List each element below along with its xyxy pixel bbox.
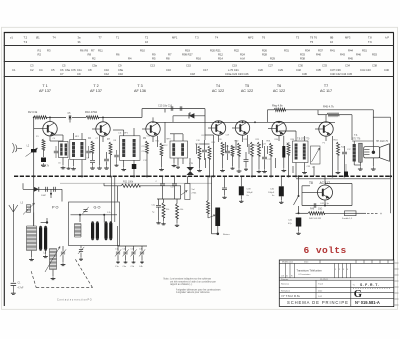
svg-text:C30: C30 (298, 64, 303, 68)
svg-text:Tracé: Tracé (318, 283, 324, 285)
svg-text:N° 019.581-A: N° 019.581-A (355, 300, 380, 305)
svg-text:v1: v1 (10, 35, 13, 39)
svg-text:AC 117: AC 117 (320, 89, 332, 93)
svg-text:T9 T6: T9 T6 (310, 35, 317, 39)
capacitor C25 below bus (160, 183, 165, 185)
extra short verticals mid band (225, 142, 227, 152)
svg-text:R10: R10 (140, 48, 145, 52)
svg-text:C5: C5 (62, 64, 66, 68)
resistor R24 vertical (251, 142, 254, 156)
car antenna input jack arcs (13, 143, 15, 153)
title block outer frame (279, 260, 394, 306)
svg-text:T4: T4 (215, 35, 219, 39)
junction dots on bus (33, 175, 35, 177)
svg-text:G: G (354, 289, 362, 300)
electrolytic C41 (296, 218, 302, 227)
wire T1 collector to MF1 (50, 140, 63, 142)
svg-text:8B: 8B (330, 35, 333, 39)
svg-text:4: 4 (347, 269, 348, 271)
junction dot (46, 221, 48, 223)
svg-text:C33: C33 (322, 64, 327, 68)
svg-text:T2: T2 (145, 35, 149, 39)
svg-text:MF2: MF2 (248, 35, 254, 39)
table row line 2 (4, 61, 394, 63)
wire rails down to output stage (211, 176, 213, 234)
svg-text:C35: C35 (316, 68, 321, 72)
svg-text:C41 C43: C41 C43 (360, 68, 371, 72)
svg-text:C5: C5 (51, 68, 55, 72)
junction dots on collector bus (218, 121, 220, 123)
speaker feed wire and ground (372, 146, 374, 152)
capacitor C36 (342, 151, 347, 153)
T.B wires (295, 131, 297, 141)
svg-text:19.12.61: 19.12.61 (320, 279, 329, 281)
svg-text:Vol: Vol (192, 189, 196, 191)
ground under MF1 (62, 166, 64, 168)
svg-text:C11: C11 (77, 68, 82, 72)
wire (61, 189, 63, 201)
on-off switch (298, 176, 300, 196)
detector diode wire (189, 112, 191, 116)
svg-text:C20: C20 (258, 68, 263, 72)
svg-text:C6a: C6a (65, 68, 70, 72)
capacitor C19 (202, 149, 207, 151)
junction dot (50, 193, 52, 195)
resistor R33 vertical (287, 143, 290, 155)
svg-text:R16: R16 (196, 57, 201, 61)
svg-text:4.6k: 4.6k (180, 209, 184, 211)
volume potentiometer bar (215, 208, 220, 227)
svg-text:T5: T5 (310, 40, 314, 44)
svg-text:C8: C8 (88, 68, 92, 72)
MF3 wires (173, 134, 175, 141)
svg-text:R11 100k: R11 100k (123, 180, 134, 183)
resistor R16 vertical 33k (176, 204, 179, 219)
svg-text:rapport au châssis (-).: rapport au châssis (-). (170, 283, 193, 286)
title block row lines (279, 262, 394, 264)
svg-text:R43: R43 (340, 53, 345, 57)
T5 leads (242, 121, 244, 123)
svg-text:1.2k: 1.2k (107, 212, 111, 214)
antenna lead wire down (12, 218, 14, 282)
svg-text:h.P: h.P (385, 35, 389, 39)
svg-text:R29: R29 (270, 57, 275, 61)
T3 leads (152, 117, 154, 121)
svg-text:C4: C4 (39, 68, 43, 72)
svg-text:C3: C3 (30, 64, 34, 68)
svg-text:1: 1 (335, 269, 336, 271)
table row line 1 (4, 45, 394, 47)
svg-text:C38: C38 (372, 64, 377, 68)
svg-text:A.M: A.M (240, 57, 246, 61)
main ground bus (heavy dashed) (14, 175, 392, 177)
svg-text:C5a: C5a (92, 64, 97, 68)
dashed contacteur outline (31, 271, 36, 287)
svg-text:C18: C18 (190, 72, 195, 76)
svg-text:Transistors Téléfunken: Transistors Téléfunken (297, 269, 323, 272)
svg-text:C15 18p C16: C15 18p C16 (158, 105, 173, 108)
svg-text:C32: C32 (296, 68, 301, 72)
junction dot retour (217, 233, 220, 236)
output supply line with R46 and fuse (296, 212, 309, 214)
svg-text:G O: G O (94, 206, 101, 210)
svg-text:R14: R14 (218, 57, 223, 61)
IF transformer MF1 box b (70, 140, 86, 160)
svg-text:T1: T1 (116, 35, 120, 39)
electrolytic C30 bar (282, 146, 285, 158)
svg-text:C29: C29 (278, 68, 283, 72)
fuse 1.5A (345, 211, 357, 216)
svg-text:T4: T4 (216, 84, 220, 88)
svg-text:AF 137: AF 137 (39, 89, 51, 93)
svg-text:C17: C17 (203, 68, 208, 72)
capacitor C39 electrolytic 100uF (239, 186, 244, 195)
extra stage1 vertical wire with ground (68, 159, 70, 166)
GO box inner trimmer and resistor (83, 209, 87, 211)
IF transformer MF3 box (170, 141, 188, 158)
svg-text:C36: C36 (302, 72, 307, 76)
wire (47, 116, 66, 118)
resistor R9 vertical (146, 141, 149, 153)
svg-text:3a: 3a (78, 35, 81, 39)
wire to battery plus (356, 212, 366, 214)
output transformer T.S core bar (359, 143, 363, 162)
T4 leads (218, 121, 220, 123)
diode D row top of tuner (23, 188, 62, 190)
svg-text:T 2: T 2 (93, 84, 98, 88)
svg-text:R45 4.7k: R45 4.7k (323, 104, 334, 108)
svg-text:C10: C10 (118, 72, 123, 76)
capacitor C40 electrolytic (279, 186, 284, 196)
svg-text:R22: R22 (234, 48, 239, 52)
svg-text:Modification: Modification (282, 261, 294, 264)
svg-text:AF 137: AF 137 (90, 89, 102, 93)
svg-text:R7: R7 (91, 48, 95, 52)
wire T3 emitter (157, 136, 159, 147)
svg-text:AC 122: AC 122 (273, 89, 285, 93)
svg-text:6 volts: 6 volts (304, 245, 347, 256)
capacitors C15 C16 on box line (170, 106, 172, 111)
capacitor C13 electrolytic (132, 164, 137, 169)
svg-text:Principe: Principe (281, 279, 289, 281)
wire T2 emitter string (99, 136, 101, 166)
svg-text:T 3: T 3 (137, 84, 142, 88)
transistor T4 AC122 (211, 121, 225, 135)
wire secondary supply line right (296, 178, 391, 180)
svg-text:T.S: T.S (354, 135, 358, 137)
transistor T1 AF137 (43, 122, 57, 136)
resistor R31 vertical (270, 143, 273, 156)
T6 leads (278, 121, 280, 122)
ground under C1 (12, 286, 14, 292)
capacitor C24 (262, 156, 267, 158)
extra bias resistor under T4 bus (231, 145, 234, 156)
svg-text:C40 C42 C44 C45: C40 C42 C44 C45 (330, 72, 352, 76)
wire stage5 (247, 135, 249, 147)
svg-text:R45: R45 (348, 57, 353, 61)
transistor T8 AC117 (318, 185, 333, 200)
svg-text:C6: C6 (60, 68, 64, 72)
transistor T2 AF137 (96, 122, 110, 136)
svg-text:MF1: MF1 (172, 35, 178, 39)
svg-text:C13: C13 (150, 64, 155, 68)
trimmer under GO box (80, 246, 82, 249)
wire top bus left (33, 116, 35, 118)
extra wire volume to T4 base (205, 134, 214, 136)
title block divider bottom row (350, 280, 352, 306)
svg-text:C10: C10 (104, 68, 109, 72)
wire trimmer feed (118, 245, 148, 247)
extra vertical wire x=205 (204, 122, 206, 135)
svg-text:T7: T7 (99, 35, 103, 39)
svg-text:2: 2 (339, 269, 340, 271)
extra vertical wires detector area (164, 122, 166, 143)
svg-text:R37: R37 (318, 48, 323, 52)
capacitor C1 4.7nF (11, 282, 17, 284)
svg-text:R2: R2 (38, 53, 42, 57)
trimmer CA1 under PO (62, 246, 64, 251)
svg-text:C7: C7 (60, 72, 64, 76)
resistor R44 vertical (337, 142, 340, 155)
capacitor C9 (104, 158, 109, 160)
sheet border frame (4, 32, 394, 34)
PO transformer bottom wires (31, 251, 33, 258)
resistor R3 vertical (42, 139, 45, 150)
svg-text:R44: R44 (348, 48, 353, 52)
speaker voice coil dot (372, 151, 375, 154)
wire feed to GO box (117, 186, 119, 202)
IF transformer MF1 box a (59, 142, 69, 158)
svg-text:16: 16 (330, 40, 333, 44)
oscillator wires into GO box (111, 176, 113, 222)
wire (72, 116, 86, 118)
extra stage2 cap (114, 154, 119, 156)
antenna (12, 206, 14, 218)
svg-text:R1 2.7k: R1 2.7k (41, 165, 50, 167)
svg-text:R41: R41 (330, 48, 335, 52)
resistor R12 vertical (160, 143, 163, 156)
wire T4 base bias (213, 135, 215, 176)
svg-text:3b: 3b (78, 40, 81, 44)
transistor T6 AC122 (272, 121, 286, 135)
svg-text:T 1: T 1 (42, 84, 47, 88)
electrolytic cap near T8 (344, 172, 348, 177)
svg-text:R46 10Ω 5W: R46 10Ω 5W (309, 218, 321, 220)
svg-text:4.7nF: 4.7nF (18, 287, 24, 289)
svg-text:C9: C9 (118, 64, 122, 68)
svg-text:R99 R27: R99 R27 (182, 53, 193, 57)
title block vertical dividers tall row (285, 263, 287, 277)
svg-text:R34: R34 (305, 48, 310, 52)
svg-text:AC 122: AC 122 (212, 89, 224, 93)
transistor T3 AF136 (146, 122, 160, 136)
svg-text:A signaler valeurs pour ré: A signaler valeurs pour référence (176, 291, 210, 294)
svg-text:C19: C19 (232, 64, 237, 68)
svg-text:R40: R40 (316, 53, 321, 57)
svg-text:3: 3 (343, 269, 344, 271)
svg-text:R6: R6 (80, 48, 84, 52)
capacitor C21 (225, 150, 230, 152)
resistor R46 10ohm (308, 212, 325, 215)
T.S wires and grounds (353, 162, 355, 166)
svg-text:T.3: T.3 (24, 40, 28, 44)
resistor R7 vertical (109, 142, 112, 155)
svg-text:R8: R8 (88, 53, 92, 57)
svg-text:R28: R28 (262, 53, 267, 57)
svg-text:R3: R3 (47, 48, 51, 52)
capacitor C2 (53, 187, 55, 192)
svg-text:SCHEMA DE PRINCIPE: SCHEMA DE PRINCIPE (287, 300, 349, 305)
speaker horn (380, 144, 390, 162)
svg-text:C15: C15 (186, 64, 191, 68)
svg-text:R2 3.3k: R2 3.3k (28, 110, 38, 114)
resistor R16 vertical (208, 146, 211, 159)
junction dots on top wire (49, 117, 51, 119)
svg-text:R1: R1 (38, 48, 42, 52)
T7 leads (325, 115, 327, 122)
svg-text:R5: R5 (152, 57, 156, 61)
svg-text:C34: C34 (345, 64, 350, 68)
svg-text:T7: T7 (324, 84, 328, 88)
svg-text:ont été mesurées à l aide: ont été mesurées à l aide d un contrôleu… (170, 280, 216, 283)
svg-text:C7b: C7b (71, 68, 76, 72)
svg-text:s.70 C21: s.70 C21 (228, 68, 239, 72)
wire (43, 150, 45, 157)
svg-text:R33: R33 (300, 53, 305, 57)
svg-text:C9: C9 (77, 72, 81, 76)
left rail wire from antenna stage (33, 117, 35, 201)
svg-text:R20 R21: R20 R21 (210, 48, 221, 52)
svg-text:375 776: 375 776 (352, 139, 361, 141)
svg-text:C46: C46 (384, 68, 389, 72)
extra cap near T5 (244, 159, 249, 161)
svg-text:R51: R51 (362, 48, 367, 52)
far right rail (390, 117, 392, 213)
paper edge ticks right of title block (394, 262, 398, 264)
svg-text:Nota : Les tensions indiqué: Nota : Les tensions indiquées sur les sc… (164, 278, 212, 281)
svg-text:T.B 375 770: T.B 375 770 (297, 138, 310, 140)
resistor R15b vertical 33k (162, 203, 165, 218)
svg-text:Rég 4.8v: Rég 4.8v (272, 104, 283, 108)
svg-text:T.3: T.3 (195, 35, 199, 39)
svg-text:C27: C27 (268, 64, 273, 68)
GO ferrite transformer a (74, 224, 76, 238)
oscillator box top wire with C15 (142, 108, 205, 110)
svg-text:R2: R2 (92, 57, 96, 61)
svg-text:R26: R26 (262, 48, 267, 52)
svg-text:P O: P O (52, 206, 59, 210)
GO band box (69, 202, 120, 246)
thermistor blob (187, 167, 195, 175)
svg-text:T8: T8 (309, 181, 313, 185)
svg-text:R24: R24 (240, 53, 245, 57)
speaker HP magnet box (364, 147, 380, 158)
svg-text:100P: 100P (41, 195, 47, 197)
collector bus wire y=122 (152, 121, 335, 123)
svg-text:A signaler tolérances pour: A signaler tolérances pour les construct… (176, 288, 221, 291)
svg-text:R46: R46 (310, 208, 315, 210)
svg-text:R6: R6 (116, 53, 120, 57)
svg-text:C2: C2 (30, 68, 34, 72)
svg-text:R38: R38 (300, 57, 305, 61)
svg-text:R9: R9 (85, 48, 89, 52)
thin bus line below (60, 182, 212, 184)
GO ferrite transformer b (104, 223, 107, 239)
wire (99, 116, 143, 118)
resistor R22 vertical (238, 143, 241, 156)
svg-text:6 Transistors: 6 Transistors (299, 273, 311, 276)
svg-text:°C: °C (353, 285, 356, 287)
svg-text:T5: T5 (245, 84, 249, 88)
wire T7 emitter (332, 136, 334, 176)
svg-text:MF3: MF3 (345, 35, 351, 39)
diode D1 detector (173, 115, 205, 117)
svg-text:R19: R19 (185, 48, 190, 52)
svg-text:7μ: 7μ (152, 212, 154, 214)
capacitor 100P (45, 187, 47, 192)
svg-text:C8a: C8a (118, 68, 123, 72)
svg-text:33k: 33k (166, 209, 169, 211)
svg-text:Nouveau: Nouveau (281, 283, 289, 285)
svg-text:10Ω: 10Ω (318, 208, 323, 210)
svg-text:Ø1: Ø1 (36, 35, 40, 39)
MF2 wires (123, 130, 125, 136)
transistor T5 AC122 (235, 121, 249, 135)
svg-text:AC 122: AC 122 (241, 89, 253, 93)
extra stage1 small caps (54, 150, 58, 152)
svg-text:Remplace: Remplace (281, 290, 291, 292)
svg-text:C37 C39: C37 C39 (330, 68, 341, 72)
MF1 wires to bus (62, 135, 64, 142)
T8 cage wires (301, 186, 303, 206)
svg-text:R7: R7 (168, 53, 172, 57)
volume pot box below bus (185, 184, 190, 200)
svg-text:R46: R46 (356, 53, 361, 57)
capacitor C27 1.5n (172, 183, 177, 185)
right rail down from supply (372, 110, 374, 146)
GO box inner top wire (71, 214, 118, 216)
svg-text:CTN: CTN (189, 163, 194, 165)
svg-text:S . F . R . T .: S . F . R . T . (360, 283, 379, 287)
svg-text:HP 4Ω/2.75: HP 4Ω/2.75 (376, 141, 389, 143)
capacitor C38 (222, 187, 227, 189)
svg-text:R4: R4 (128, 57, 132, 61)
svg-text:C1: C1 (12, 68, 16, 72)
ground under R3 (43, 163, 45, 165)
svg-text:100μF: 100μF (247, 192, 254, 194)
capacitor C3 electrolytic blob (41, 158, 46, 163)
svg-text:C16: C16 (166, 68, 171, 72)
resistor R19 vertical (221, 142, 224, 155)
svg-text:T.2: T.2 (24, 35, 28, 39)
svg-text:C12: C12 (104, 72, 109, 76)
svg-text:R12: R12 (218, 53, 223, 57)
svg-text:AF 136: AF 136 (134, 89, 146, 93)
svg-text:Fusible 1,5: Fusible 1,5 (342, 218, 353, 220)
wire left rail into tuner (33, 202, 35, 227)
resistor R26 vertical (258, 142, 261, 156)
driver stage pot box (311, 146, 321, 164)
title block divider rows 4-6 (315, 280, 317, 298)
svg-text:T.9: T.9 (368, 40, 372, 44)
svg-text:T4: T4 (53, 35, 57, 39)
resistor R4 vertical with cap (91, 141, 94, 153)
transistor T7 AC117 (319, 122, 333, 136)
volume wire (204, 135, 206, 140)
T1 leads (49, 117, 51, 121)
wire (325, 212, 345, 214)
PO ferrite transformer (26, 226, 28, 251)
